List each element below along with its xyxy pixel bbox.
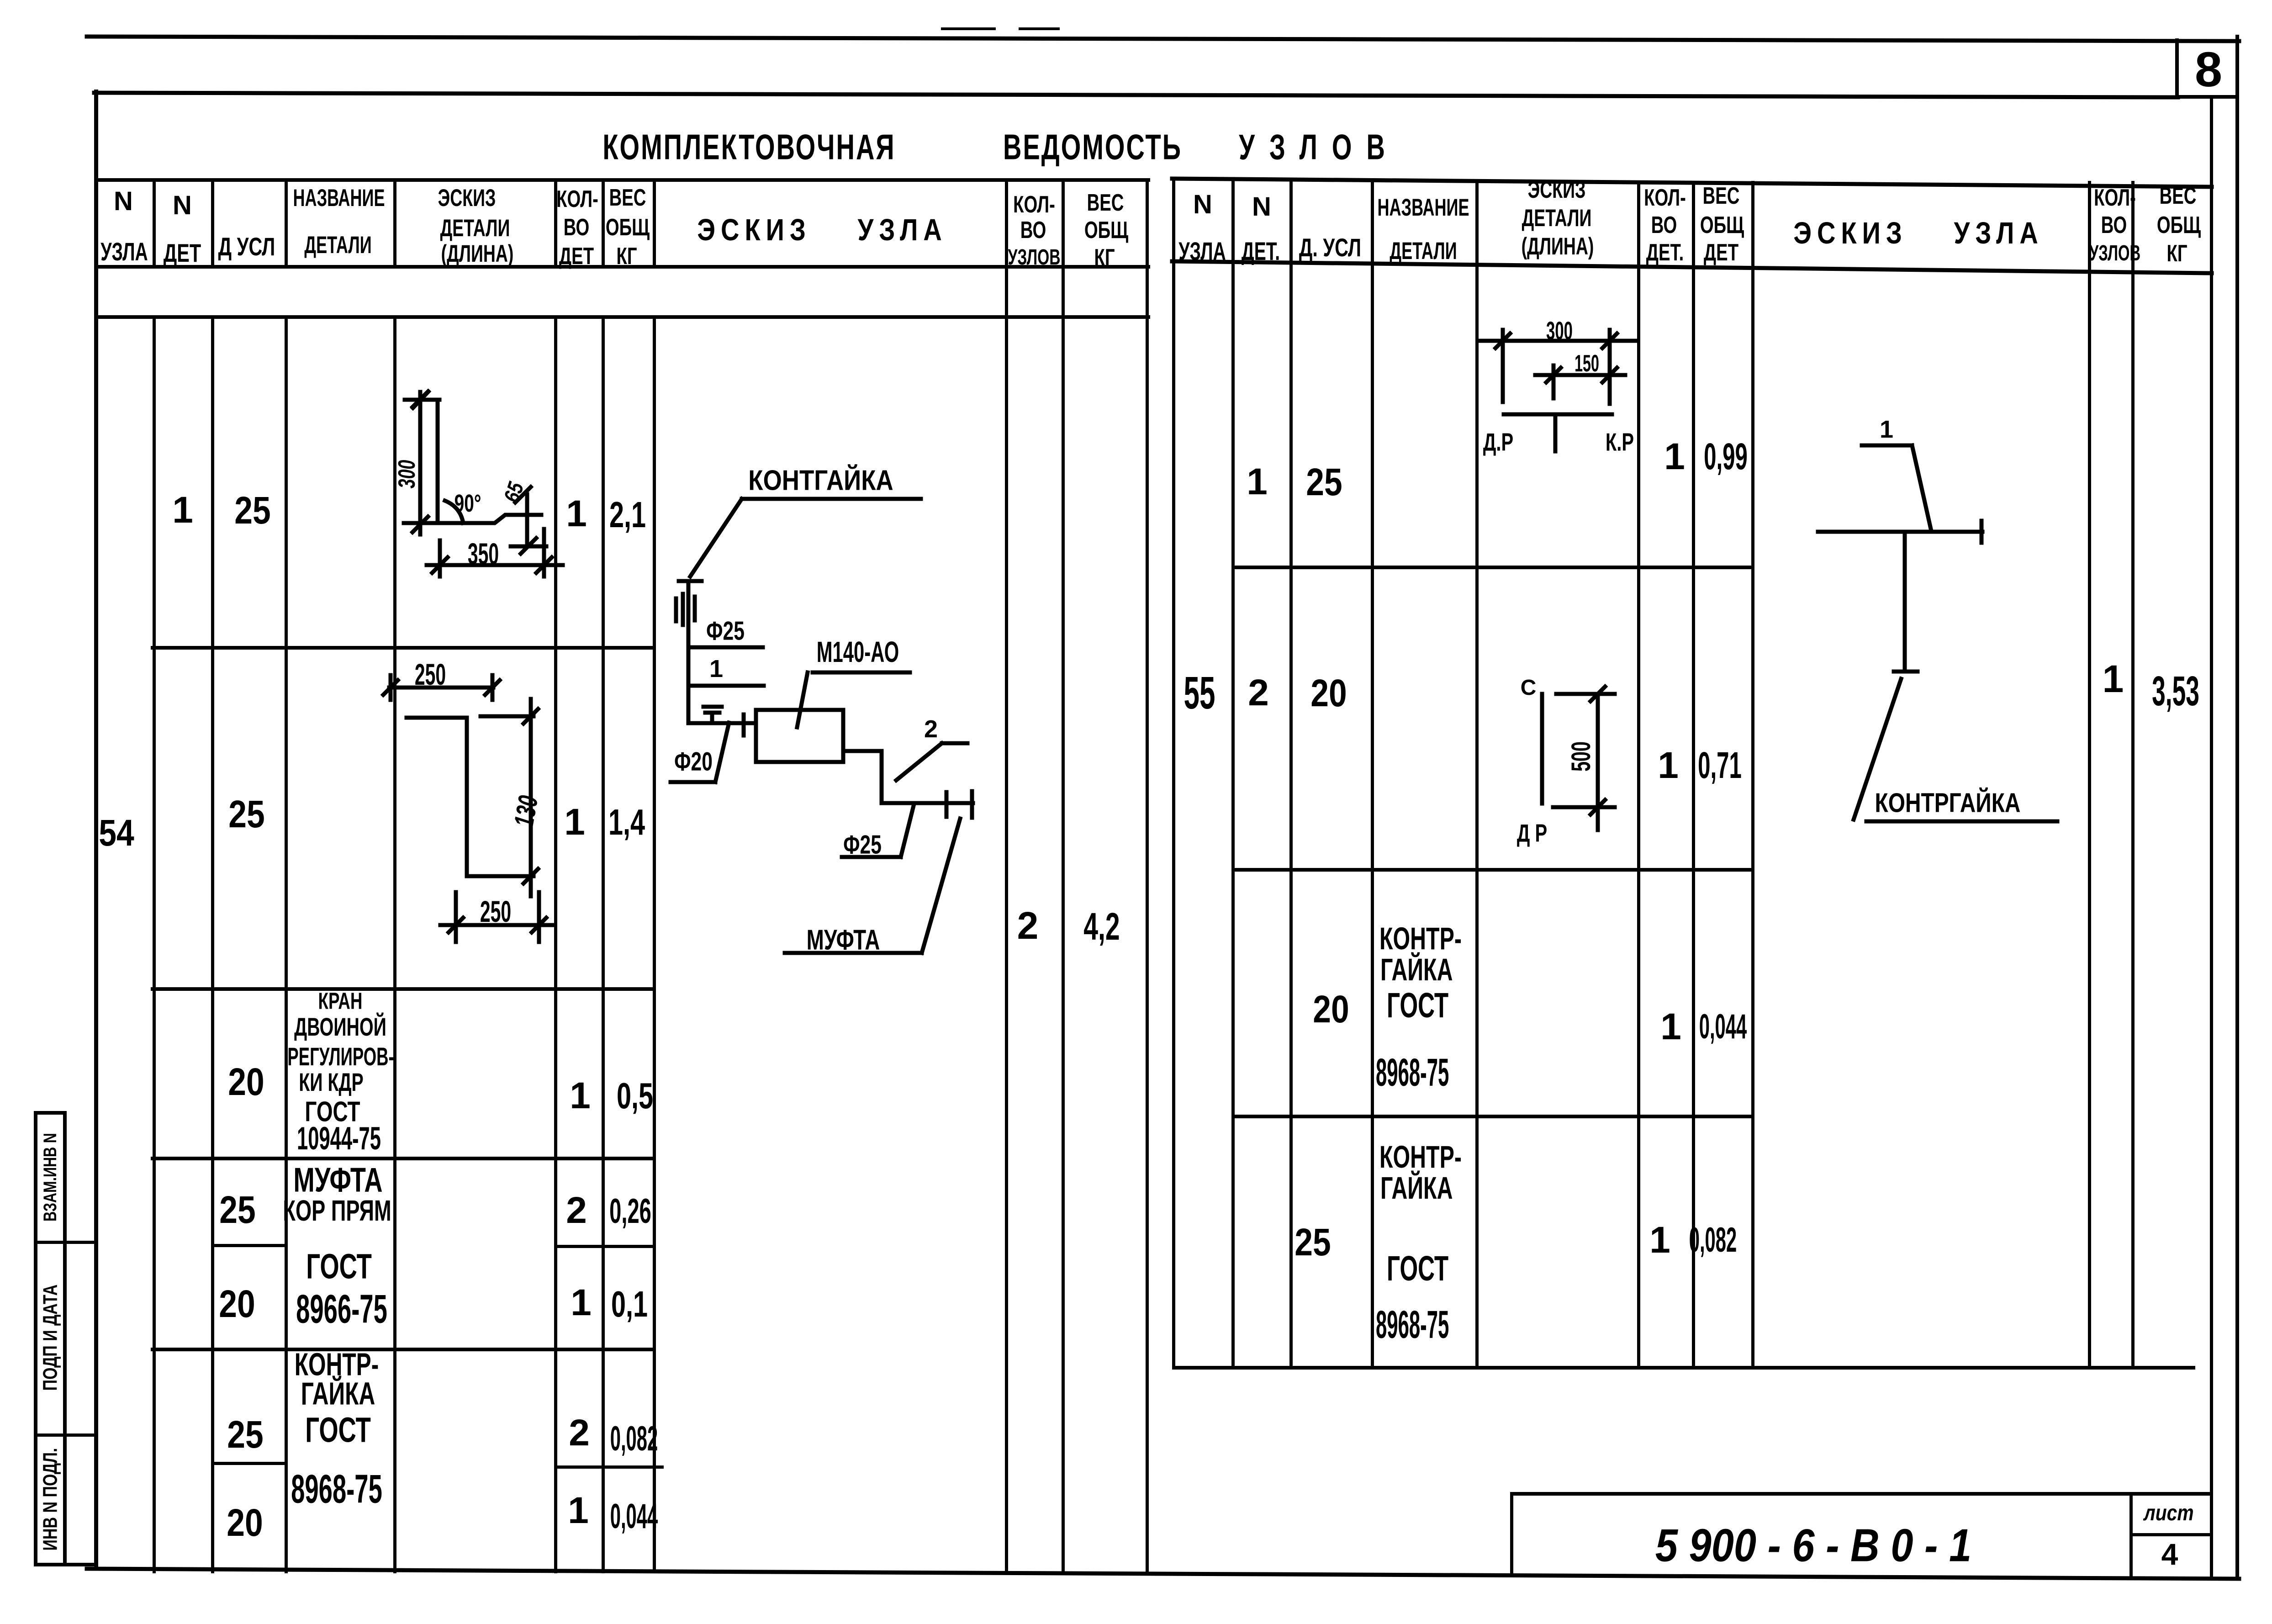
right rowB N дет 2 bbox=[1248, 674, 1269, 712]
frame top sketch doubling dashes bbox=[941, 27, 996, 30]
left МУФТА вес 0,1 bbox=[611, 1286, 648, 1322]
right rowB кол-во 1 bbox=[1658, 747, 1679, 784]
right header Вес общ кг bbox=[2160, 184, 2197, 207]
pipe outline bbox=[407, 718, 534, 876]
М140-АО leader bbox=[797, 672, 808, 727]
right rowC кол-во 1 bbox=[1660, 1008, 1681, 1046]
left col Кол-во дет | Вес общ (header) bbox=[602, 178, 605, 268]
label 2 leader bbox=[896, 743, 942, 780]
right header Вес общ дет bbox=[1703, 184, 1740, 207]
Ф20 underline bbox=[671, 780, 715, 784]
dim 130 slash top bbox=[523, 709, 538, 724]
dim text 300 bbox=[1546, 318, 1573, 344]
М140-АО label bbox=[817, 638, 899, 667]
title block лист divider vertical bbox=[2129, 1492, 2133, 1579]
hatch marks bbox=[676, 594, 695, 625]
dim 130 slash bottom bbox=[523, 869, 538, 883]
title block лист underline bbox=[2129, 1533, 2213, 1536]
Контргайка underline bbox=[1866, 820, 2057, 824]
dim text 150 bbox=[1575, 352, 1599, 376]
dim 250 bottom slash left bbox=[449, 918, 463, 932]
right rowC вес 0,044 bbox=[1699, 1010, 1747, 1044]
pipe from box bbox=[844, 751, 973, 803]
left col Д усл | Название (body) bbox=[285, 315, 288, 1573]
left col Кол-во дет | Вес общ (body) bbox=[602, 315, 605, 1573]
dim 350 left extension bbox=[438, 540, 442, 577]
right col Эскиз узла | Кол-во узлов bbox=[2088, 181, 2091, 1368]
title КОМПЛЕКТОВОЧНАЯ bbox=[602, 129, 895, 165]
label 2 bbox=[924, 717, 938, 741]
dim line 150 bbox=[1535, 373, 1625, 377]
left КОНТРГАЙКА кол-во 2 bbox=[569, 1414, 590, 1452]
title block top bbox=[1510, 1492, 2213, 1496]
right col N узла | N дет bbox=[1231, 181, 1235, 1368]
dim line 300 bbox=[418, 392, 423, 534]
right header Название детали bbox=[1377, 196, 1469, 220]
dim text 300 bbox=[395, 460, 419, 488]
left КОНТРГАЙКА вес 0,044 bbox=[610, 1499, 658, 1534]
tee symbol top bar bbox=[703, 705, 722, 709]
left МУФТА кол-во 2 bbox=[566, 1192, 587, 1229]
left МУФТА Д усл 25 bbox=[219, 1190, 255, 1229]
dim line 350 bbox=[427, 563, 563, 567]
dim 250 bottom slash right bbox=[532, 918, 546, 932]
МУФТА label bbox=[807, 926, 880, 954]
dim 250 top slash left bbox=[383, 680, 398, 695]
right header N дет. bbox=[1252, 194, 1271, 220]
МУФТА leader bbox=[922, 819, 960, 953]
dim 250 top serif right bbox=[491, 675, 495, 700]
Контгайка underline bbox=[742, 497, 921, 501]
М140-АО underline bbox=[813, 671, 910, 675]
left margin strip outer box left bbox=[34, 1111, 37, 1566]
left col Эскиз детали | Кол-во дет (header) bbox=[554, 178, 557, 268]
right col Кол-во узлов | Вес общ кг bbox=[2131, 181, 2135, 1368]
dim 300 slash left bbox=[1495, 333, 1510, 348]
right table header top line bbox=[1172, 179, 2212, 187]
лист label bbox=[2144, 1502, 2193, 1524]
лист value 4 bbox=[2161, 1539, 2178, 1569]
dim 150 ext mid bbox=[1552, 365, 1556, 398]
right rowB вес 0,71 bbox=[1698, 747, 1742, 784]
dim text 250 top bbox=[415, 659, 446, 689]
right header Кол-во узлов bbox=[2094, 185, 2136, 209]
left row1 detail sketch: bent pipe bbox=[404, 391, 563, 577]
tables top border line bbox=[94, 93, 2178, 97]
left col N узла | N дет (header) bbox=[153, 178, 156, 268]
Контгайка leader bbox=[690, 499, 742, 577]
dim 65 lower slash bbox=[521, 538, 536, 554]
left МУФТА Д усл 20 bbox=[219, 1285, 255, 1323]
sheet number box left edge bbox=[2175, 38, 2179, 97]
right col Вес общ | Эскиз узла bbox=[1751, 181, 1754, 1368]
dim line 300 bbox=[1480, 339, 1636, 343]
right rowC name Контр-гайка bbox=[1379, 924, 1462, 955]
left row2 кол-во 1 bbox=[564, 804, 585, 841]
dim vertical bbox=[1596, 694, 1600, 830]
angle arc 90 bbox=[445, 501, 463, 523]
pipe top tick bbox=[679, 579, 702, 583]
right rowA Д усл 25 bbox=[1306, 463, 1342, 501]
left col Кол-во узлов | Вес общ кг bbox=[1062, 178, 1065, 1573]
left header Кол-во узлов bbox=[1013, 192, 1055, 216]
left МУФТА кол-во 1 bbox=[571, 1284, 592, 1322]
page frame bottom line bbox=[87, 1569, 2239, 1579]
dim 250 bottom serif right bbox=[537, 892, 541, 942]
left margin strip top bbox=[34, 1111, 67, 1115]
dim 300 ext right bbox=[1608, 330, 1612, 404]
left узел кол-во узлов 2 bbox=[1017, 906, 1039, 945]
dim top tick bbox=[1556, 692, 1615, 696]
dim 250 top serif left bbox=[389, 675, 393, 700]
left table body top bbox=[94, 315, 1150, 319]
left col Д усл | Название (header) bbox=[285, 178, 288, 268]
pipe bbox=[1504, 413, 1612, 417]
label 1 bbox=[1880, 417, 1893, 442]
page frame right bbox=[2235, 35, 2239, 1581]
node number 54 bbox=[99, 815, 134, 852]
left sub-line Д усл МУФТА 25|20 bbox=[211, 1244, 288, 1247]
left col Название | Эскиз детали (body) bbox=[393, 315, 396, 1573]
dim 65 upper tick bbox=[525, 494, 529, 545]
left row line under МУФТА section bbox=[151, 1348, 656, 1351]
dim line 250 bottom bbox=[440, 923, 555, 927]
left col Эскиз детали | Кол-во дет (body) bbox=[554, 315, 557, 1573]
pipe elbow to box bbox=[688, 721, 756, 725]
cross bar bbox=[1818, 530, 1982, 534]
left КРАН Д усл 20 bbox=[228, 1063, 264, 1101]
slant pipe bbox=[1912, 445, 1931, 531]
label C bbox=[1521, 677, 1537, 699]
right col Кол-во дет | Вес общ bbox=[1692, 181, 1695, 1368]
pipe outline bbox=[438, 400, 541, 523]
left header Кол-во дет bbox=[556, 187, 598, 211]
right header Кол-во дет. bbox=[1644, 185, 1686, 209]
left table header top bbox=[94, 178, 1150, 182]
right rowB detail sketch bbox=[1542, 687, 1615, 830]
doc number 5 900-6-В 0-1 bbox=[1655, 1523, 1971, 1569]
left margin strip outer box right bbox=[63, 1111, 67, 1566]
union cap bar 2 bbox=[970, 791, 974, 818]
margin stamp ПОДП И ДАТА bbox=[40, 1285, 60, 1391]
left row1 вес 2,1 bbox=[609, 497, 646, 533]
left row2 detail sketch: Z pipe bbox=[383, 675, 555, 942]
dim text 130 bbox=[510, 793, 543, 829]
right header Д. усл bbox=[1299, 235, 1361, 260]
right rowD name Контр-гайка bbox=[1379, 1142, 1462, 1173]
dim 150 slash right bbox=[1602, 368, 1617, 382]
right col Д усл | Название bbox=[1371, 181, 1374, 1368]
label 1 underline bbox=[690, 684, 764, 688]
top end tick bbox=[405, 398, 439, 402]
Ф25 lower leader bbox=[901, 806, 914, 857]
Контргайка label bbox=[1875, 789, 2021, 817]
Ф25 lower underline bbox=[842, 855, 901, 859]
tee symbol second bar bbox=[705, 711, 719, 715]
dim line 250 top bbox=[389, 686, 493, 690]
pipe branch bbox=[1553, 416, 1558, 451]
dim 300 ext left bbox=[1501, 330, 1505, 402]
left КОНТРГАЙКА Д усл 25 bbox=[227, 1415, 263, 1454]
valve box М140-АО bbox=[756, 710, 843, 762]
left sub-line Д усл КОНТРГАЙКА 25|20 bbox=[211, 1462, 288, 1465]
left header Эскиз узла bbox=[697, 214, 947, 245]
right table right edge bbox=[2210, 95, 2213, 1579]
dim slash bottom bbox=[1590, 800, 1605, 815]
dim 130 vertical bbox=[529, 699, 533, 896]
left header N узла bbox=[114, 188, 133, 215]
dim 350 slash left bbox=[432, 557, 448, 573]
left col N дет | Д усл (body) bbox=[211, 315, 214, 1573]
left row1 Д усл 25 bbox=[234, 491, 270, 529]
title УЗЛОВ bbox=[1239, 129, 1400, 165]
dim 65 lower tick bbox=[511, 545, 546, 549]
riser pipe bbox=[687, 582, 691, 723]
left table right edge bbox=[1146, 178, 1149, 1573]
right col Эскиз детали | Кол-во дет bbox=[1637, 181, 1640, 1368]
right rowA detail sketch bbox=[1480, 330, 1636, 451]
left margin strip divider 1 bbox=[34, 1241, 98, 1244]
left КОНТРГАЙКА вес 0,082 bbox=[610, 1422, 658, 1456]
Ф25 label bbox=[706, 618, 745, 644]
dim 300 slash top bbox=[412, 391, 428, 407]
dim 300 slash bottom bbox=[412, 517, 428, 532]
right rowA вес 0,99 bbox=[1704, 438, 1748, 476]
left КОНТРГАЙКА кол-во 1 bbox=[568, 1492, 589, 1529]
Ф25 underline bbox=[692, 645, 763, 650]
left КОНТРГАЙКА Д усл 20 bbox=[227, 1503, 263, 1542]
top end slash bbox=[413, 391, 428, 408]
label 1 bbox=[709, 656, 723, 681]
left col Вес общ | Эскиз узла (body) bbox=[653, 315, 656, 1573]
left sub-line Кол/Вес 0,082|0,044 bbox=[554, 1465, 664, 1469]
right table bottom bbox=[1172, 1366, 2195, 1370]
left узел вес общ 4,2 bbox=[1083, 907, 1120, 946]
left col Эскиз узла | Кол-во узлов bbox=[1005, 178, 1008, 1573]
union cap bar 1 bbox=[945, 792, 949, 817]
title block left edge bbox=[1510, 1492, 1513, 1576]
label 2 line bbox=[942, 741, 967, 746]
left margin strip divider 2 bbox=[34, 1434, 98, 1437]
left col Название | Эскиз детали (header) bbox=[393, 178, 396, 268]
left row1 N дет 1 bbox=[172, 492, 193, 529]
left col N дет | Д усл (header) bbox=[211, 178, 214, 268]
left row2 Д усл 25 bbox=[228, 795, 264, 833]
left КРАН кол-во 1 bbox=[570, 1077, 591, 1115]
left row line under КРАН section bbox=[151, 1157, 656, 1160]
left name МУФТА block bbox=[293, 1163, 382, 1197]
left name КРАН block bbox=[318, 989, 363, 1013]
right header N узла bbox=[1193, 191, 1212, 218]
label К.Р bbox=[1606, 430, 1634, 455]
left sub-line Кол/Вес 0,26|0,1 bbox=[554, 1245, 656, 1248]
left header Д усл bbox=[218, 234, 275, 259]
dim 250 top slash right bbox=[485, 680, 500, 695]
pipe bbox=[1540, 694, 1544, 804]
right col Название | Эскиз детали bbox=[1475, 181, 1479, 1368]
left name КОНТРГАЙКА block bbox=[295, 1349, 379, 1381]
left col Вес общ | Эскиз узла (header) bbox=[653, 178, 656, 268]
right узел sketch bbox=[1818, 445, 2057, 821]
right node number 55 bbox=[1184, 670, 1215, 716]
stem bottom tick bbox=[1894, 670, 1918, 674]
dim 350 right extension bbox=[542, 529, 546, 577]
right rowC Д усл 20 bbox=[1313, 990, 1349, 1028]
sheet number box bottom bbox=[2175, 95, 2239, 99]
right table header bottom line bbox=[1172, 261, 2212, 273]
page frame left / left table edge bbox=[94, 90, 98, 1571]
right table left edge bbox=[1172, 179, 1175, 1370]
left row line under row2 bbox=[151, 987, 656, 991]
right row line under row C bbox=[1231, 1115, 1753, 1118]
dim text 90° bbox=[454, 491, 481, 516]
left header N дет bbox=[173, 192, 192, 219]
left table header bottom bbox=[94, 265, 1150, 269]
Ф20 leader bbox=[715, 723, 729, 782]
right rowA N дет 1 bbox=[1247, 463, 1268, 501]
right col N дет | Д усл bbox=[1289, 181, 1293, 1368]
left header Вес общ кг bbox=[609, 185, 646, 209]
dim bottom tick bbox=[1553, 805, 1615, 809]
dim 150 slash mid bbox=[1546, 368, 1561, 382]
right rowA кол-во 1 bbox=[1664, 438, 1685, 476]
МУФТА underline bbox=[785, 951, 922, 955]
dim text 65 bbox=[501, 480, 528, 505]
cross bar right tick bbox=[1980, 521, 1984, 543]
page frame top line bbox=[87, 37, 2239, 41]
Контргайка leader bbox=[1854, 679, 1901, 820]
left МУФТА вес 0,26 bbox=[609, 1194, 651, 1229]
joint tick bbox=[742, 714, 746, 735]
right rowD вес 0,082 bbox=[1689, 1223, 1737, 1258]
right rowD кол-во 1 bbox=[1649, 1222, 1670, 1259]
sheet number 8 bbox=[2195, 45, 2222, 94]
right rowB Д усл 20 bbox=[1310, 674, 1347, 712]
left header Эскиз детали (длина) bbox=[438, 186, 496, 211]
label Д Р bbox=[1517, 821, 1547, 846]
right узел вес общ 3,53 bbox=[2152, 670, 2199, 712]
right узел кол-во узлов 1 bbox=[2103, 660, 2124, 698]
left row2 вес 1,4 bbox=[608, 804, 645, 841]
dim 250 bottom serif left bbox=[454, 892, 458, 942]
right header Эскиз узла bbox=[1793, 217, 2044, 248]
left col N узла | N дет (body) bbox=[153, 315, 156, 1573]
margin stamp ВЗАМ.ИНВ N bbox=[41, 1133, 59, 1222]
dim 350 slash right bbox=[536, 557, 552, 573]
dim 300 bottom extension bbox=[404, 521, 438, 525]
dim slash top bbox=[1590, 687, 1605, 701]
Контгайка label bbox=[748, 466, 893, 495]
left узел sketch bbox=[671, 499, 973, 953]
dim 65 upper slash bbox=[515, 487, 531, 503]
dim 300 slash right bbox=[1602, 333, 1617, 348]
right row line under row A bbox=[1231, 566, 1753, 569]
margin stamp ИНВ N ПОДЛ. bbox=[40, 1448, 60, 1551]
right header Эскиз детали (длина) bbox=[1528, 178, 1586, 202]
dim text 500 bbox=[1568, 741, 1595, 772]
label Д.Р bbox=[1483, 430, 1513, 455]
left header Название детали bbox=[293, 186, 385, 211]
left header Вес общ кг (узлов) bbox=[1087, 190, 1124, 214]
left row line under row1 bbox=[151, 646, 656, 650]
label 1 underline bbox=[1862, 444, 1912, 448]
right row line under row B bbox=[1231, 868, 1753, 872]
left row1 кол-во 1 bbox=[566, 495, 587, 533]
dim 130 top tick bbox=[481, 714, 534, 719]
Ф20 label bbox=[674, 749, 713, 775]
right rowD Д усл 25 bbox=[1295, 1223, 1331, 1261]
left КРАН вес 0,5 bbox=[617, 1078, 653, 1114]
tee symbol stem bbox=[710, 713, 714, 723]
dim text 350 bbox=[468, 539, 499, 569]
stem pipe bbox=[1903, 534, 1907, 671]
dim text 250 bottom bbox=[480, 896, 511, 926]
title ВЕДОМОСТЬ bbox=[1003, 129, 1182, 165]
Ф25 lower label bbox=[843, 832, 882, 858]
left margin strip bottom bbox=[34, 1563, 98, 1566]
